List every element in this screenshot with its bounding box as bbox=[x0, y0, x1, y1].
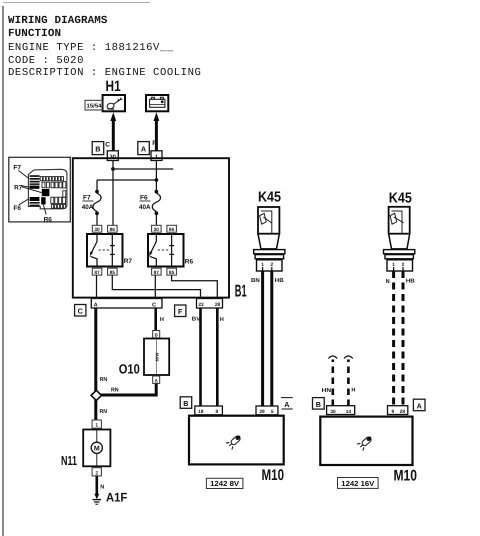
svg-text:K45: K45 bbox=[389, 190, 412, 206]
K45 internal contact bbox=[392, 211, 403, 234]
wire N dashed K45 pin1 to M10 pin 9 bbox=[392, 271, 395, 406]
ECU M10 connector A strip pins 29/5 bbox=[256, 406, 278, 415]
svg-text:HB: HB bbox=[275, 278, 284, 284]
ECU M10 connector A strip pins 9/28 bbox=[388, 406, 408, 415]
pin 30 box on B1 top bbox=[107, 151, 118, 161]
fusebox legend inset frame bbox=[9, 157, 71, 222]
relay R7 pin 30 bbox=[92, 225, 102, 232]
svg-text:23: 23 bbox=[198, 302, 204, 308]
svg-text:RN: RN bbox=[100, 409, 108, 415]
wire H dashed stub to M10 pin 14 bbox=[347, 360, 350, 407]
wire from pin 1 down to fuse F6 bbox=[155, 161, 157, 192]
wire C: arrow up into H1 bbox=[110, 112, 116, 121]
svg-text:85: 85 bbox=[169, 270, 175, 276]
connector label A (over/underline) bbox=[281, 397, 293, 399]
B1 output connector strip F pins 23/28 bbox=[197, 299, 223, 309]
svg-text:RN: RN bbox=[100, 377, 108, 383]
svg-text:B: B bbox=[95, 145, 100, 154]
svg-text:N: N bbox=[386, 279, 390, 285]
connector label B (boxed) bbox=[92, 142, 104, 155]
svg-text:N11: N11 bbox=[61, 453, 77, 468]
wire RN junction to O10 pin A bbox=[101, 383, 156, 395]
wire HN dashed stub to M10 pin 30 bbox=[331, 360, 334, 407]
value label 1242 16V bbox=[338, 478, 379, 489]
pointer F7 bbox=[19, 171, 29, 179]
svg-text:30: 30 bbox=[94, 227, 100, 233]
svg-text:86: 86 bbox=[169, 227, 175, 233]
K45 internal contact bbox=[261, 211, 272, 234]
svg-text:1242 16V: 1242 16V bbox=[341, 479, 374, 488]
relay R6 slot (filled) bbox=[30, 197, 40, 201]
fuse F6 bbox=[155, 190, 159, 194]
svg-text:B: B bbox=[155, 333, 158, 338]
svg-text:K45: K45 bbox=[258, 190, 281, 206]
connector label A (boxed) bbox=[138, 142, 150, 155]
wire H from F28 to M10 pin 8 bbox=[216, 308, 219, 406]
svg-text:2: 2 bbox=[95, 470, 98, 476]
fuse ladder F6 bbox=[30, 202, 40, 206]
node junction on pin30 wire bbox=[111, 167, 115, 171]
K45 taper bbox=[258, 234, 279, 249]
svg-text:28: 28 bbox=[400, 409, 406, 415]
pointer R7 bbox=[22, 186, 42, 193]
svg-text:87: 87 bbox=[94, 270, 100, 276]
svg-text:86: 86 bbox=[110, 227, 116, 233]
battery icon bbox=[150, 97, 165, 107]
svg-text:40A: 40A bbox=[139, 204, 151, 211]
pointer F6 bbox=[19, 199, 29, 205]
node junction on pin1 wire bbox=[155, 178, 159, 182]
connector label B (boxed) bbox=[313, 398, 325, 410]
ECU M10 (1242 16V) connector B strip pins 30/14 bbox=[327, 406, 355, 415]
motor N11 pin 1 bbox=[92, 420, 101, 428]
svg-text:R6: R6 bbox=[44, 216, 53, 223]
fusebox outline bbox=[28, 169, 67, 209]
svg-text:29: 29 bbox=[259, 409, 265, 415]
relay R6 actuation dashed bbox=[158, 249, 170, 251]
relay R7 box bbox=[87, 234, 123, 267]
svg-text:30: 30 bbox=[154, 227, 160, 233]
resistor O10 pin A bbox=[153, 376, 160, 383]
K45 collar bbox=[254, 250, 285, 254]
wire R: arrow up into battery bbox=[154, 112, 160, 121]
svg-text:F7: F7 bbox=[13, 165, 21, 172]
relay R7 switch blade bbox=[91, 234, 97, 254]
wire from pin 30 down to relay R7 pin 86 bbox=[112, 161, 114, 226]
svg-text:BN: BN bbox=[251, 278, 260, 284]
svg-text:R: R bbox=[152, 140, 157, 147]
connector label F (boxed) bbox=[175, 305, 186, 317]
ignition switch symbol box H1 bbox=[103, 95, 125, 111]
svg-text:R6: R6 bbox=[185, 259, 194, 266]
fuse ladder F7 bbox=[30, 175, 40, 185]
K45 collar bbox=[384, 250, 415, 254]
header: DESCRIPTION value bbox=[8, 67, 201, 79]
svg-text:60W: 60W bbox=[154, 353, 159, 362]
svg-text:R7: R7 bbox=[124, 258, 133, 265]
svg-text:F: F bbox=[178, 307, 183, 316]
wire N from N11 pin2 to ground bbox=[96, 476, 99, 496]
node junction (diamond) bbox=[91, 390, 101, 400]
wire bus to fuse F7 bbox=[97, 179, 156, 181]
relay R7 actuation dashed bbox=[99, 249, 111, 251]
svg-text:15/54: 15/54 bbox=[87, 103, 103, 110]
ECU M10 (1242 8V) connector B strip pins 18/8 bbox=[195, 406, 223, 415]
relay R6 tall slot (filled) bbox=[41, 197, 45, 204]
svg-text:BV: BV bbox=[192, 316, 201, 322]
svg-text:H1: H1 bbox=[106, 78, 121, 95]
svg-text:H: H bbox=[351, 388, 355, 394]
svg-text:14: 14 bbox=[346, 409, 352, 415]
svg-text:40A: 40A bbox=[82, 204, 94, 211]
wire branch to R6 coil (ends) bbox=[113, 168, 173, 170]
svg-text:B1: B1 bbox=[235, 282, 247, 301]
wire RN junction down to N11 bbox=[94, 400, 97, 420]
ECU M10 body bbox=[320, 417, 412, 465]
wire HB K45 pin2 to M10 pin 5 bbox=[270, 271, 273, 406]
svg-text:28: 28 bbox=[215, 302, 221, 308]
fuse row upper bbox=[40, 177, 66, 198]
svg-text:B: B bbox=[183, 399, 188, 408]
wire RN from pin A to junction bbox=[94, 308, 97, 392]
svg-text:A1F: A1F bbox=[106, 490, 128, 504]
motor N11 pin 2 bbox=[92, 468, 101, 476]
svg-text:B: B bbox=[316, 400, 321, 409]
svg-text:M10: M10 bbox=[262, 467, 285, 484]
svg-text:C: C bbox=[152, 302, 156, 308]
relay R6 switch blade bbox=[150, 234, 156, 254]
relay R6 box bbox=[148, 234, 184, 267]
relay R6 pin 30 bbox=[152, 225, 162, 232]
relay R7 coil bbox=[111, 234, 113, 267]
svg-text:A: A bbox=[284, 400, 289, 409]
svg-text:1: 1 bbox=[95, 423, 98, 429]
svg-text:H: H bbox=[160, 317, 164, 323]
label 15/54 box bbox=[85, 100, 103, 110]
injection icon inside M10 bbox=[226, 433, 243, 450]
pin 1 box on B1 top bbox=[151, 151, 162, 161]
wire HB dashed K45 pin2 to M10 pin 28 bbox=[402, 271, 405, 406]
wire BV from F23 to M10 pin 18 bbox=[199, 308, 202, 406]
resistor O10 pin B bbox=[153, 331, 160, 338]
svg-text:85: 85 bbox=[110, 270, 116, 276]
header: WIRING DIAGRAMS bbox=[8, 15, 108, 27]
connector label C (boxed) bbox=[75, 305, 86, 317]
svg-text:A: A bbox=[417, 401, 422, 410]
relay R6 pin 85 bbox=[167, 268, 177, 275]
wire R7 pin87 to connector pin A bbox=[96, 275, 98, 298]
svg-text:O10: O10 bbox=[119, 362, 140, 377]
motor N11 body bbox=[83, 430, 110, 467]
relay R6 pin 87 bbox=[152, 268, 162, 275]
injection icon inside M10 bbox=[357, 434, 374, 451]
header: CODE value bbox=[8, 55, 84, 67]
relay R7 slot (filled) bbox=[30, 186, 40, 189]
svg-text:A: A bbox=[141, 145, 146, 154]
svg-text:H: H bbox=[220, 317, 224, 323]
fusebox B1 outline bbox=[73, 158, 229, 297]
wire H from pin C to O10 pin B bbox=[154, 308, 157, 331]
relay R6 coil bbox=[171, 234, 173, 267]
header: ENGINE TYPE value bbox=[8, 42, 174, 54]
thermal switch K45 body bbox=[389, 207, 410, 234]
svg-text:F6: F6 bbox=[13, 205, 21, 212]
fuse F7 bbox=[95, 190, 99, 194]
wire R7 pin85 to connector F pin 23 bbox=[112, 275, 200, 298]
svg-text:RN: RN bbox=[111, 387, 119, 393]
fuse row lower bbox=[51, 197, 66, 208]
pointer R6 bbox=[43, 205, 46, 215]
svg-text:30: 30 bbox=[330, 409, 336, 415]
header: FUNCTION bbox=[8, 28, 61, 40]
svg-text:A: A bbox=[94, 302, 98, 308]
svg-text:M: M bbox=[94, 446, 100, 453]
K45 taper bbox=[389, 234, 410, 249]
wire R6 pin85 to connector F pin 28 bbox=[172, 275, 218, 298]
relay R7 pin 85 bbox=[108, 268, 118, 275]
ground A1F bbox=[94, 494, 99, 500]
svg-text:18: 18 bbox=[198, 409, 204, 415]
relay R7 pin 86 bbox=[108, 225, 118, 232]
ignition key icon bbox=[107, 98, 123, 110]
connector label B (boxed) bbox=[180, 397, 192, 409]
svg-text:5: 5 bbox=[271, 409, 274, 415]
svg-text:9: 9 bbox=[391, 409, 394, 415]
svg-text:1242 8V: 1242 8V bbox=[210, 479, 239, 488]
battery symbol box bbox=[146, 95, 168, 111]
K45 connector 1/2 bbox=[257, 260, 283, 271]
wire R6 pin87 to connector pin C bbox=[154, 275, 156, 298]
svg-text:A: A bbox=[155, 378, 159, 383]
K45 connector 1/2 bbox=[387, 260, 413, 271]
relay R7 pin 87 bbox=[92, 268, 102, 275]
svg-text:C: C bbox=[78, 307, 83, 316]
svg-text:N: N bbox=[100, 484, 104, 490]
svg-text:M10: M10 bbox=[394, 468, 418, 485]
wire BN K45 pin1 to M10 pin 29 bbox=[261, 271, 264, 406]
connector label A (boxed) bbox=[413, 399, 425, 411]
resistor O10 body bbox=[144, 339, 169, 376]
ECU M10 body bbox=[189, 416, 284, 465]
svg-text:C: C bbox=[105, 142, 110, 149]
svg-text:87: 87 bbox=[154, 270, 160, 276]
svg-text:8: 8 bbox=[215, 409, 218, 415]
svg-text:HB: HB bbox=[406, 279, 415, 285]
B1 output connector strip A/C bbox=[91, 299, 162, 309]
svg-text:R7: R7 bbox=[14, 184, 23, 191]
value label 1242 8V bbox=[206, 478, 243, 488]
svg-text:HN: HN bbox=[322, 388, 332, 394]
thermal switch K45 body bbox=[258, 207, 279, 234]
relay R6 pin 86 bbox=[167, 225, 177, 232]
relay slot big (filled) bbox=[42, 189, 50, 196]
